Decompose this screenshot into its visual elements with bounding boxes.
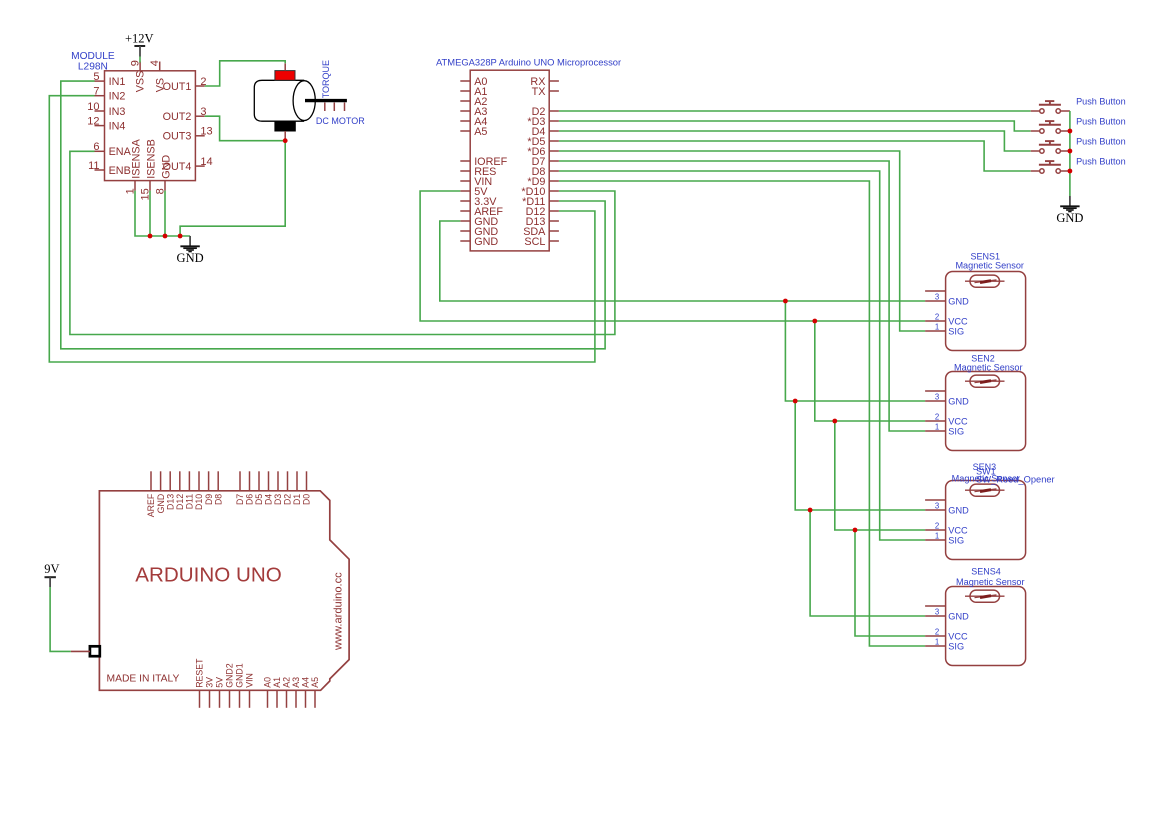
L298N pin 1 ISENSA (bottom) xyxy=(134,181,136,191)
board pin D9 (top) xyxy=(208,471,210,491)
svg-text:SIG: SIG xyxy=(948,536,964,546)
junction node (795.2,401) xyxy=(793,399,798,404)
motor pin stub bottom xyxy=(284,131,286,141)
SENS4 pin NC xyxy=(925,605,946,607)
motor terminal + (red) xyxy=(275,71,295,81)
svg-text:10: 10 xyxy=(87,101,99,113)
wire D3 to push button S2 xyxy=(559,121,1031,131)
wire L298N GND to ground bus xyxy=(164,191,166,236)
svg-text:DC MOTOR: DC MOTOR xyxy=(316,116,365,126)
board pin A3 (bottom) xyxy=(295,690,297,708)
svg-text:Magnetic Sensor: Magnetic Sensor xyxy=(954,363,1022,373)
L298N pin 4 VS (top) xyxy=(159,62,161,71)
junction node (1069.9,151) xyxy=(1068,149,1073,154)
L298N pin 3 OUT2 xyxy=(195,115,204,117)
SENS4 pin GND xyxy=(925,615,946,617)
motor end cap ellipse xyxy=(293,81,315,121)
svg-text:D3: D3 xyxy=(273,494,283,505)
SEN2 pin SIG xyxy=(925,430,946,432)
svg-text:D1: D1 xyxy=(292,494,302,505)
svg-text:VCC: VCC xyxy=(948,417,968,427)
board pin D3 (top) xyxy=(277,471,279,491)
wire GND branch to SENS4 xyxy=(810,510,925,616)
svg-text:ENA: ENA xyxy=(109,146,132,158)
svg-text:A5: A5 xyxy=(310,677,320,688)
motor shaft ticks xyxy=(324,103,326,112)
junction node (834.8,421) xyxy=(832,419,837,424)
svg-text:GND: GND xyxy=(948,506,969,516)
board pin D7 (top) xyxy=(239,471,241,491)
wire GND branch to SEN2 xyxy=(785,301,925,401)
svg-text:SCL: SCL xyxy=(524,236,545,248)
L298N pin 5 IN1 xyxy=(95,80,105,82)
wire ISENSA to ground bus xyxy=(135,191,190,236)
magnetic sensor SENS3 box xyxy=(946,481,1026,560)
svg-text:D0: D0 xyxy=(302,494,312,505)
push button S4 xyxy=(1031,170,1040,172)
svg-text:GND: GND xyxy=(474,236,498,248)
svg-text:RESET: RESET xyxy=(195,658,205,688)
L298N pin 7 IN2 xyxy=(95,95,105,97)
push button S3 xyxy=(1031,150,1040,152)
svg-text:Push Button: Push Button xyxy=(1076,116,1126,126)
svg-text:1: 1 xyxy=(935,638,939,647)
board pin D13 (top) xyxy=(169,471,171,491)
board pin 5V (bottom) xyxy=(219,690,221,708)
U1 pin RX (right) xyxy=(549,80,559,82)
U1 pin D8 (right) xyxy=(549,170,559,172)
board pin D0 (top) xyxy=(306,471,308,491)
U1 pin SCL (right) xyxy=(549,240,559,242)
ground symbol GND near L298N xyxy=(189,236,191,246)
SEN2 reed switch glyph xyxy=(970,375,1000,387)
svg-text:IN3: IN3 xyxy=(109,106,126,118)
magnetic sensor SEN2 box xyxy=(946,372,1026,451)
svg-text:IN2: IN2 xyxy=(109,91,126,103)
svg-text:4: 4 xyxy=(149,60,161,66)
board pin D4 (top) xyxy=(268,471,270,491)
svg-text:VIN: VIN xyxy=(245,673,255,688)
board pin A0 (bottom) xyxy=(267,690,269,708)
motor terminal - (black) xyxy=(275,121,295,131)
svg-text:A1: A1 xyxy=(272,677,282,688)
wire 9V to power jack xyxy=(50,587,71,651)
board pin D12 (top) xyxy=(179,471,181,491)
svg-text:D7: D7 xyxy=(235,494,245,505)
svg-text:GND2: GND2 xyxy=(225,663,235,688)
SENS1 pin NC xyxy=(925,290,946,292)
U1 pin *D10 (right) xyxy=(549,190,559,192)
U1 pin *D3 (right) xyxy=(549,120,559,122)
svg-text:GND: GND xyxy=(948,612,969,622)
SENS3 reed switch glyph xyxy=(970,484,1000,496)
U1 pin GND (left) xyxy=(460,220,470,222)
wire D10 to ENA xyxy=(70,151,615,334)
svg-text:D8: D8 xyxy=(213,494,223,505)
L298N pin 10 IN3 xyxy=(95,110,105,112)
U1 pin GND (left) xyxy=(460,230,470,232)
svg-text:GND: GND xyxy=(160,155,172,179)
junction node (1069.9,171) xyxy=(1068,169,1073,174)
svg-text:14: 14 xyxy=(200,156,212,168)
wire D11 to IN1 xyxy=(61,81,605,349)
svg-text:11: 11 xyxy=(88,160,99,172)
svg-text:A5: A5 xyxy=(474,126,487,138)
board pin A5 (bottom) xyxy=(314,690,316,708)
board pin 3V (bottom) xyxy=(209,690,211,708)
wire D6 to SENS1 SIG xyxy=(559,151,925,331)
svg-text:VCC: VCC xyxy=(948,317,968,327)
wire push button bus to ground xyxy=(1069,111,1071,196)
wire 5V to sensors VCC xyxy=(420,191,925,321)
motor shaft xyxy=(305,99,347,102)
motor pin stub top xyxy=(284,63,286,70)
svg-text:D10: D10 xyxy=(194,494,204,510)
svg-text:ENB: ENB xyxy=(109,165,131,177)
board pin D5 (top) xyxy=(258,471,260,491)
svg-text:9V: 9V xyxy=(44,562,59,576)
wire D2 to push button S1 xyxy=(559,110,1031,112)
U1 pin *D6 (right) xyxy=(549,150,559,152)
motor M1 body xyxy=(254,80,304,121)
svg-text:ATMEGA328P Arduino UNO Micropr: ATMEGA328P Arduino UNO Microprocessor xyxy=(436,56,621,67)
junction node (855,530) xyxy=(853,528,858,533)
U1 pin GND (left) xyxy=(460,240,470,242)
L298N pin 15 ISENSB (bottom) xyxy=(149,181,151,191)
svg-text:3: 3 xyxy=(935,293,939,302)
SEN2 pin GND xyxy=(925,400,946,402)
svg-text:IN1: IN1 xyxy=(109,76,126,88)
svg-text:A4: A4 xyxy=(301,677,311,688)
U1 pin AREF (left) xyxy=(460,210,470,212)
magnetic sensor SENS4 box xyxy=(946,587,1026,666)
wire OUT2 to motor - xyxy=(205,116,286,141)
svg-text:D13: D13 xyxy=(165,494,175,510)
svg-text:D11: D11 xyxy=(185,494,195,510)
svg-text:GND: GND xyxy=(177,251,204,265)
push button S1 xyxy=(1031,110,1040,112)
svg-text:Push Button: Push Button xyxy=(1076,96,1126,106)
svg-text:1: 1 xyxy=(935,323,939,332)
svg-text:www.arduino.cc: www.arduino.cc xyxy=(332,572,344,651)
svg-text:GND: GND xyxy=(1056,211,1083,225)
svg-text:3: 3 xyxy=(935,502,939,511)
svg-text:SIG: SIG xyxy=(948,427,964,437)
svg-text:D9: D9 xyxy=(204,494,214,505)
junction node (810.1,510) xyxy=(808,508,813,513)
svg-text:MODULE: MODULE xyxy=(71,51,115,62)
svg-text:+12V: +12V xyxy=(125,31,154,45)
U1 pin 3.3V (left) xyxy=(460,200,470,202)
svg-text:ISENSA: ISENSA xyxy=(130,138,142,178)
wire +12V to VSS xyxy=(139,57,141,63)
L298N pin 9 VSS (top) xyxy=(139,62,141,71)
svg-text:5V: 5V xyxy=(215,677,225,688)
wire D8 to SENS3 SIG xyxy=(559,171,925,540)
svg-text:D4: D4 xyxy=(264,494,274,505)
svg-text:A2: A2 xyxy=(282,677,292,688)
svg-text:D5: D5 xyxy=(254,494,264,505)
SENS4 pin VCC xyxy=(925,635,946,637)
svg-text:3: 3 xyxy=(935,608,939,617)
push button S2 xyxy=(1031,130,1040,132)
U1 pin SDA (right) xyxy=(549,230,559,232)
svg-text:GND: GND xyxy=(948,297,969,307)
junction node (165,236) xyxy=(163,234,168,239)
svg-text:MADE IN ITALY: MADE IN ITALY xyxy=(107,674,180,685)
SENS1 pin VCC xyxy=(925,320,946,322)
wire GND branch to SENS3 xyxy=(795,401,925,510)
SENS3 pin GND xyxy=(925,509,946,511)
board pin GND2 (bottom) xyxy=(229,690,231,708)
board pin A1 (bottom) xyxy=(276,690,278,708)
svg-text:GND: GND xyxy=(156,494,166,514)
svg-text:OUT1: OUT1 xyxy=(163,81,192,93)
U1 pin A1 (left) xyxy=(460,90,470,92)
board pin A2 (bottom) xyxy=(286,690,288,708)
SENS3 pin VCC xyxy=(925,529,946,531)
svg-text:OUT3: OUT3 xyxy=(163,131,192,143)
SENS1 pin SIG xyxy=(925,330,946,332)
wire D5 to push button S4 xyxy=(559,141,1031,171)
svg-text:SIG: SIG xyxy=(948,642,964,652)
U1 pin A0 (left) xyxy=(460,80,470,82)
junction node (1069.9,131) xyxy=(1068,129,1073,134)
U1 pin D4 (right) xyxy=(549,130,559,132)
U1 pin *D11 (right) xyxy=(549,200,559,202)
board pin GND (top) xyxy=(160,471,162,491)
svg-text:VCC: VCC xyxy=(948,526,968,536)
board pin A4 (bottom) xyxy=(305,690,307,708)
L298N pin 11 ENB xyxy=(95,169,105,171)
board jack pin stub xyxy=(71,650,90,652)
wire GND to sensors GND xyxy=(440,221,925,301)
SENS4 reed switch glyph xyxy=(970,590,1000,602)
wire D12 to IN2 xyxy=(49,96,595,362)
L298N pin 12 IN4 xyxy=(95,125,105,127)
junction node (150,236) xyxy=(148,234,153,239)
U1 pin A5 (left) xyxy=(460,130,470,132)
svg-text:Magnetic Sensor: Magnetic Sensor xyxy=(955,261,1023,271)
junction node (285.2,140.7) xyxy=(283,138,288,143)
wire ISENSB to ground bus xyxy=(149,191,151,236)
wire VCC branch to SENS4 xyxy=(855,530,925,636)
svg-text:3: 3 xyxy=(935,393,939,402)
SENS4 pin SIG xyxy=(925,645,946,647)
svg-text:SENS4: SENS4 xyxy=(971,567,1001,577)
svg-text:D12: D12 xyxy=(175,494,185,510)
svg-text:2: 2 xyxy=(935,522,939,531)
U1 pin A4 (left) xyxy=(460,120,470,122)
U1 pin RES (left) xyxy=(460,170,470,172)
board pin VIN (bottom) xyxy=(249,690,251,708)
board pin D8 (top) xyxy=(217,471,219,491)
U1 pin *D5 (right) xyxy=(549,140,559,142)
SENS3 pin SIG xyxy=(925,539,946,541)
L298N pin 6 ENA xyxy=(95,150,105,152)
U1 pin *D9 (right) xyxy=(549,180,559,182)
svg-text:SW_Reed_Opener: SW_Reed_Opener xyxy=(976,475,1055,485)
SEN2 pin NC xyxy=(925,390,946,392)
U1 pin D2 (right) xyxy=(549,110,559,112)
L298N pin 2 OUT1 xyxy=(195,85,204,87)
L298N pin 14 OUT4 xyxy=(195,165,204,167)
svg-text:2: 2 xyxy=(935,413,939,422)
U1 pin A3 (left) xyxy=(460,110,470,112)
ground symbol GND near push buttons xyxy=(1069,196,1071,206)
board pin D6 (top) xyxy=(249,471,251,491)
svg-text:AREF: AREF xyxy=(146,493,156,517)
wire D7 to SEN2 SIG xyxy=(559,161,925,431)
svg-text:VSS: VSS xyxy=(135,71,147,93)
wire VCC branch to SEN2 xyxy=(815,321,925,421)
svg-text:2: 2 xyxy=(935,628,939,637)
board pin D1 (top) xyxy=(296,471,298,491)
svg-text:ARDUINO UNO: ARDUINO UNO xyxy=(135,564,281,587)
SENS1 reed switch glyph xyxy=(970,275,1000,287)
magnetic sensor SENS1 box xyxy=(946,272,1026,351)
wire OUT1 to motor + xyxy=(205,61,286,86)
svg-text:TORQUE: TORQUE xyxy=(321,60,331,98)
svg-text:D2: D2 xyxy=(283,494,293,505)
svg-text:1: 1 xyxy=(935,532,939,541)
svg-text:SIG: SIG xyxy=(948,327,964,337)
board pin D2 (top) xyxy=(287,471,289,491)
svg-text:A3: A3 xyxy=(291,677,301,688)
U1 pin A2 (left) xyxy=(460,100,470,102)
svg-text:D6: D6 xyxy=(245,494,255,505)
svg-text:12: 12 xyxy=(87,115,99,127)
wire VCC branch to SENS3 xyxy=(835,421,925,530)
board pin AREF (top) xyxy=(150,471,152,491)
svg-text:13: 13 xyxy=(200,126,212,138)
junction node (785.4,301) xyxy=(783,299,788,304)
U1 pin IOREF (left) xyxy=(460,160,470,162)
U1 pin D13 (right) xyxy=(549,220,559,222)
junction node (814.8,321) xyxy=(812,319,817,324)
SEN2 pin VCC xyxy=(925,420,946,422)
svg-text:GND1: GND1 xyxy=(235,663,245,688)
L298N pin 8 GND (bottom) xyxy=(164,181,166,191)
U1 pin VIN (left) xyxy=(460,180,470,182)
Arduino UNO board outline xyxy=(99,491,349,691)
board pin GND1 (bottom) xyxy=(239,690,241,708)
svg-text:TX: TX xyxy=(532,86,546,98)
L298N pin 13 OUT3 xyxy=(195,135,204,137)
microprocessor U1 ATMEGA328P box xyxy=(470,70,549,251)
junction node (180.1,236) xyxy=(178,234,183,239)
svg-text:3V: 3V xyxy=(205,677,215,688)
board pin RESET (bottom) xyxy=(199,690,201,708)
U1 pin D7 (right) xyxy=(549,160,559,162)
board power jack square xyxy=(90,646,100,656)
U1 pin 5V (left) xyxy=(460,190,470,192)
svg-text:Magnetic Sensor: Magnetic Sensor xyxy=(956,577,1024,587)
board pin D10 (top) xyxy=(198,471,200,491)
svg-text:ISENSB: ISENSB xyxy=(145,139,157,179)
svg-text:GND: GND xyxy=(948,397,969,407)
svg-text:Push Button: Push Button xyxy=(1076,136,1126,146)
U1 pin D12 (right) xyxy=(549,210,559,212)
svg-text:VCC: VCC xyxy=(948,632,968,642)
svg-text:L298N: L298N xyxy=(78,62,108,73)
wire motor - to ground bus xyxy=(180,141,285,236)
svg-text:2: 2 xyxy=(935,313,939,322)
SENS1 pin GND xyxy=(925,300,946,302)
svg-text:Push Button: Push Button xyxy=(1076,156,1126,166)
svg-text:A0: A0 xyxy=(263,677,273,688)
svg-text:OUT2: OUT2 xyxy=(163,111,192,123)
wire D4 to push button S3 xyxy=(559,131,1031,151)
wire D9 to SENS4 SIG xyxy=(559,181,925,646)
svg-text:1: 1 xyxy=(935,423,939,432)
SENS3 pin NC xyxy=(925,499,946,501)
board pin D11 (top) xyxy=(188,471,190,491)
U1 pin TX (right) xyxy=(549,90,559,92)
svg-text:IN4: IN4 xyxy=(109,120,126,132)
module U2 L298N box xyxy=(105,71,196,181)
